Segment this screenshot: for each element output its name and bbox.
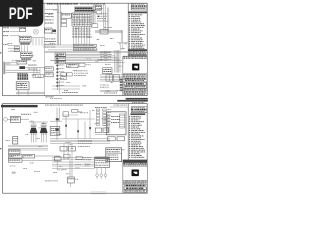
svg-text:PDF: PDF bbox=[9, 5, 33, 23]
